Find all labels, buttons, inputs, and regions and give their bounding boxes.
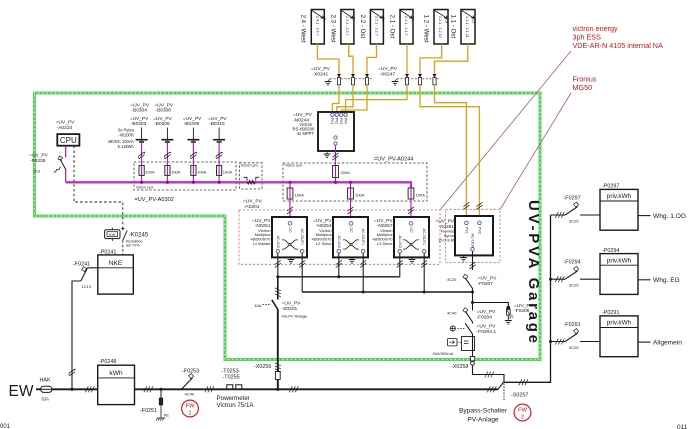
wire CPU to DC bus bbox=[65, 170, 67, 183]
DC busbar bbox=[66, 182, 411, 188]
svg-text:-B0306: -B0306 bbox=[154, 121, 170, 127]
svg-text:-P0294: -P0294 bbox=[602, 248, 619, 254]
svg-text:PV2: PV2 bbox=[477, 227, 481, 234]
svg-text:=UV_PV: =UV_PV bbox=[477, 324, 497, 330]
svg-text:15.0-3-M: 15.0-3-M bbox=[438, 237, 454, 242]
svg-text:2.1.1 - 2.1.7: 2.1.1 - 2.1.7 bbox=[404, 16, 408, 36]
svg-text:100A: 100A bbox=[295, 193, 305, 198]
svg-text:priv.kWh: priv.kWh bbox=[607, 257, 632, 264]
svg-text:kWh: kWh bbox=[109, 370, 123, 377]
red dashed enclosure A0301 ESS inverters bbox=[239, 210, 440, 264]
svg-text:-F0204: -F0204 bbox=[477, 314, 493, 320]
leader line victron bbox=[440, 51, 571, 210]
svg-text:-B0310: -B0310 bbox=[209, 121, 225, 127]
AC-OUT wires from inverters bbox=[302, 253, 424, 292]
wire X0258 to bypass bbox=[473, 365, 505, 381]
house service fuse HAK 63A bbox=[40, 378, 53, 402]
svg-text:-F0253: -F0253 bbox=[182, 368, 199, 374]
terminal X0256 bbox=[254, 363, 281, 380]
dashed enclosure A0302 battery fuse box bbox=[134, 162, 236, 190]
svg-text:=UV_PV: =UV_PV bbox=[378, 66, 398, 72]
svg-text:NKE: NKE bbox=[109, 260, 123, 267]
svg-text:-F0294: -F0294 bbox=[564, 260, 581, 266]
svg-text:-P0291: -P0291 bbox=[602, 310, 619, 316]
svg-text:Reduktion: Reduktion bbox=[126, 239, 143, 243]
svg-text:-F0297: -F0297 bbox=[564, 196, 581, 202]
svg-text:4x MPPT: 4x MPPT bbox=[297, 131, 314, 136]
svg-text:PV3: PV3 bbox=[339, 118, 343, 124]
break marks on DC feeders bbox=[287, 207, 293, 214]
svg-text:2.4 - West: 2.4 - West bbox=[300, 15, 307, 43]
AC-IN busbar bbox=[278, 276, 400, 278]
svg-text:L2 Slave: L2 Slave bbox=[316, 241, 332, 246]
svg-text:Victron Lynx: Victron Lynx bbox=[136, 185, 154, 189]
svg-text:2.3 - West: 2.3 - West bbox=[329, 15, 336, 43]
svg-text:=UV_PV: =UV_PV bbox=[208, 116, 227, 122]
svg-text:7x: 7x bbox=[352, 18, 356, 22]
meter P0297 priv.kWh bbox=[600, 184, 686, 231]
break marks at enclosure edge bbox=[275, 260, 281, 267]
svg-text:3C25: 3C25 bbox=[569, 283, 579, 288]
svg-text:CPU: CPU bbox=[60, 136, 77, 145]
fuse 200A bbox=[333, 166, 351, 183]
svg-text:1.2.1 - 1.2.10: 1.2.1 - 1.2.10 bbox=[438, 16, 442, 38]
svg-text:AC-IN2: AC-IN2 bbox=[398, 236, 402, 248]
svg-text:PV4: PV4 bbox=[343, 118, 347, 124]
svg-text:L3 Slave: L3 Slave bbox=[377, 241, 393, 246]
svg-text:-X0258: -X0258 bbox=[451, 364, 468, 370]
svg-text:HS-PV Anlage: HS-PV Anlage bbox=[282, 314, 308, 319]
surge arrester F0206 bbox=[505, 303, 534, 324]
svg-text:-S0201: -S0201 bbox=[282, 306, 298, 312]
battery string 4 bbox=[213, 128, 225, 183]
inverter U-N0254 L2 Slave bbox=[311, 217, 368, 263]
RCD block 40A/300mA bbox=[433, 334, 475, 357]
energy meter P0248 kWh bbox=[98, 359, 135, 404]
svg-text:40A/300mA: 40A/300mA bbox=[433, 351, 454, 356]
fuse F0251 to PE bbox=[140, 389, 169, 420]
battery fuse 100A 4 bbox=[217, 166, 233, 176]
svg-text:Powermeter: Powermeter bbox=[217, 395, 250, 402]
branch Whg. 1.OG bbox=[551, 196, 601, 224]
svg-text:=UV_PV: =UV_PV bbox=[293, 112, 313, 118]
breaker F0238 bbox=[29, 146, 66, 174]
svg-text:-F0206: -F0206 bbox=[514, 308, 530, 314]
battery labels row2 bbox=[130, 116, 228, 127]
PV string 1.2 - West bbox=[422, 10, 448, 45]
svg-text:-P0241: -P0241 bbox=[99, 249, 116, 255]
green dashed boundary UV-PVA Garage area bbox=[35, 93, 541, 360]
svg-text:63A: 63A bbox=[42, 397, 50, 402]
svg-text:VDE-AR-N 4105 internal NA: VDE-AR-N 4105 internal NA bbox=[573, 41, 663, 50]
svg-text:-P0297: -P0297 bbox=[602, 184, 619, 190]
red dashed enclosure A0261 Fronius bbox=[446, 209, 501, 262]
svg-text:=UV_PV: =UV_PV bbox=[155, 102, 174, 108]
svg-text:-T0253-: -T0253- bbox=[222, 368, 241, 374]
current transformer T0253-T0255 bbox=[217, 368, 255, 409]
battery fuse 100A 1 bbox=[139, 166, 155, 176]
marker FW2 bbox=[514, 404, 531, 421]
shunt symbol in Lynx box bbox=[244, 177, 260, 184]
svg-text:-A0224: -A0224 bbox=[57, 125, 73, 131]
svg-text:FW: FW bbox=[185, 404, 195, 410]
svg-text:=UV_PV: =UV_PV bbox=[311, 66, 331, 72]
svg-text:Whg. 1.OG: Whg. 1.OG bbox=[653, 213, 686, 220]
svg-text:4C40: 4C40 bbox=[447, 311, 457, 316]
svg-text:Whg. EG: Whg. EG bbox=[653, 277, 680, 284]
inverter fuse 100A N0251 bbox=[287, 188, 304, 199]
svg-text:PV-Anlage: PV-Anlage bbox=[467, 417, 498, 424]
battery fuse 100A 3 bbox=[191, 166, 207, 176]
battery bank data text bbox=[108, 128, 135, 150]
svg-text:auf 70%: auf 70% bbox=[126, 244, 140, 248]
marker FW1 bbox=[182, 400, 199, 417]
svg-text:-F0241: -F0241 bbox=[73, 261, 90, 267]
wire to surge arrester bbox=[473, 303, 509, 307]
bypass switch S0257 bbox=[498, 382, 528, 402]
AC-IN wires from inverters bbox=[278, 253, 400, 277]
dashed enclosure Lynx shunt bbox=[240, 163, 263, 189]
svg-text:-K0245: -K0245 bbox=[129, 233, 149, 239]
svg-text:=UV_PV: =UV_PV bbox=[130, 116, 149, 122]
svg-text:2: 2 bbox=[521, 415, 524, 421]
svg-text:21x: 21x bbox=[472, 18, 476, 24]
load feeder bus right bbox=[504, 215, 551, 382]
svg-text:=UV_PV: =UV_PV bbox=[514, 303, 534, 309]
svg-text:=UV_PV: =UV_PV bbox=[374, 218, 393, 224]
breaker F0241 1C13 bbox=[73, 261, 98, 289]
svg-text:priv.kWh: priv.kWh bbox=[607, 320, 632, 327]
svg-text:AC-OUT: AC-OUT bbox=[471, 234, 475, 249]
svg-text:L1 Master: L1 Master bbox=[253, 241, 271, 246]
svg-text:48100R: 48100R bbox=[119, 133, 133, 138]
EW main bus bbox=[36, 388, 498, 390]
svg-text:-B0304: -B0304 bbox=[131, 108, 147, 114]
svg-text:-B0308: -B0308 bbox=[156, 108, 172, 114]
riser to F0241 bbox=[72, 281, 81, 389]
svg-text:1.2 - West: 1.2 - West bbox=[422, 15, 429, 43]
svg-text:=UV_PV: =UV_PV bbox=[153, 116, 172, 122]
svg-text:=UV_PV: =UV_PV bbox=[477, 309, 497, 315]
inverter U-N0251 L1 Master bbox=[250, 217, 307, 263]
svg-text:100A: 100A bbox=[171, 170, 181, 175]
svg-text:7x: 7x bbox=[381, 18, 385, 22]
switch S0201 HS-PV Anlage bbox=[254, 277, 307, 319]
svg-text:200A: 200A bbox=[341, 170, 351, 175]
svg-text:2.4.1 - 2.4.7: 2.4.1 - 2.4.7 bbox=[316, 16, 320, 36]
svg-text:=UV_PV: =UV_PV bbox=[29, 152, 49, 158]
terminal strip X0241 bbox=[311, 66, 372, 85]
svg-text:-A0301: -A0301 bbox=[244, 204, 260, 210]
breaker F0204 4C40 bbox=[447, 303, 496, 323]
ripple control receiver P0241 NKE bbox=[98, 249, 134, 294]
terminal X0258 bbox=[451, 357, 475, 371]
svg-text:2.2 - Ost: 2.2 - Ost bbox=[359, 15, 366, 39]
svg-text:2K3: 2K3 bbox=[33, 169, 41, 174]
inverter fuse 100A N0254 bbox=[348, 188, 365, 199]
svg-text:DC: DC bbox=[409, 227, 413, 233]
svg-text:2.1 - Ost: 2.1 - Ost bbox=[388, 15, 395, 39]
svg-text:Victron 75/1A: Victron 75/1A bbox=[217, 402, 255, 409]
svg-text:-X0247: -X0247 bbox=[380, 71, 396, 77]
svg-text:1C13: 1C13 bbox=[82, 284, 92, 289]
svg-text:1.1.1 - 1.1.21: 1.1.1 - 1.1.21 bbox=[465, 16, 469, 38]
svg-text:1.1 - Ost: 1.1 - Ost bbox=[449, 15, 456, 39]
svg-text:Bypass-Schalter: Bypass-Schalter bbox=[459, 408, 508, 415]
svg-text:-F0251: -F0251 bbox=[140, 408, 157, 414]
svg-text:HAK: HAK bbox=[40, 378, 51, 384]
RCD switch F0204.1 bbox=[450, 322, 496, 335]
svg-text:=UV_PV: =UV_PV bbox=[282, 301, 302, 307]
svg-text:PV1: PV1 bbox=[330, 118, 334, 124]
terminal strip X0247 bbox=[378, 66, 439, 85]
relay contact K0245 bbox=[105, 227, 149, 255]
svg-text:100A: 100A bbox=[223, 170, 233, 175]
svg-text:=UV_PV: =UV_PV bbox=[313, 218, 332, 224]
svg-text:7x: 7x bbox=[411, 18, 415, 22]
leader line fronius bbox=[500, 93, 571, 210]
svg-text:40A: 40A bbox=[254, 303, 261, 308]
PV string 2.4 - West bbox=[300, 10, 326, 45]
svg-text:=UV_PV: =UV_PV bbox=[56, 120, 76, 126]
svg-text:PE: PE bbox=[164, 414, 170, 418]
wire fronius junction down bbox=[472, 292, 474, 303]
PV string 2.1 - Ost bbox=[388, 10, 414, 45]
PV wires strings to terminals bbox=[317, 44, 467, 74]
branch Whg. EG bbox=[551, 260, 601, 288]
svg-text:3C25: 3C25 bbox=[569, 345, 579, 350]
ground at N0244 bbox=[326, 151, 328, 154]
svg-text:100A: 100A bbox=[416, 193, 426, 198]
svg-text:AC-OUT1: AC-OUT1 bbox=[300, 229, 304, 246]
svg-text:AC-OUT1: AC-OUT1 bbox=[361, 229, 365, 246]
svg-text:100A: 100A bbox=[355, 193, 365, 198]
svg-text:-T0255: -T0255 bbox=[223, 375, 240, 381]
svg-text:=UV_PV: =UV_PV bbox=[130, 102, 149, 108]
svg-text:EW: EW bbox=[109, 232, 116, 237]
svg-text:-X0256: -X0256 bbox=[254, 364, 271, 370]
svg-text:AC-IN2: AC-IN2 bbox=[276, 236, 280, 248]
inverter A0261 Fronius Symo bbox=[435, 216, 493, 261]
PV string 1.1 - Ost bbox=[449, 10, 475, 45]
svg-text:PV1: PV1 bbox=[464, 227, 468, 234]
svg-text:PV2: PV2 bbox=[335, 118, 339, 124]
PV string 2.2 - Ost bbox=[359, 10, 385, 45]
svg-text:Allgemein: Allgemein bbox=[653, 340, 682, 347]
battery B0303/B0304 string 1 bbox=[136, 128, 148, 183]
junction dots EW bus bbox=[70, 388, 73, 391]
annotation victron energy 3ph ESS bbox=[573, 24, 663, 50]
wire break marks fronius PV wires bbox=[463, 202, 469, 209]
PV string 2.3 - West bbox=[329, 10, 355, 45]
svg-text:100A: 100A bbox=[197, 170, 207, 175]
svg-text:=UV_PV-A0244: =UV_PV-A0244 bbox=[374, 157, 413, 163]
svg-text:priv.kWh: priv.kWh bbox=[607, 193, 632, 200]
inverter fuse 100A N0257 bbox=[408, 188, 425, 199]
svg-text:MG50: MG50 bbox=[573, 83, 593, 92]
PV wires terminals to Fronius bbox=[420, 85, 479, 216]
svg-text:2.2.1 - 2.2.7: 2.2.1 - 2.2.7 bbox=[375, 16, 379, 36]
svg-text:4C25: 4C25 bbox=[447, 277, 457, 282]
battery labels row1 bbox=[130, 102, 173, 113]
svg-text:=UV_PV: =UV_PV bbox=[252, 218, 271, 224]
junction dots DC bus bbox=[140, 181, 352, 184]
svg-text:-F0238: -F0238 bbox=[30, 158, 46, 164]
svg-text:DC: DC bbox=[349, 227, 353, 233]
svg-text:-F0207: -F0207 bbox=[478, 281, 494, 287]
svg-text:-F0291: -F0291 bbox=[564, 322, 581, 328]
svg-text:-S0257: -S0257 bbox=[511, 392, 528, 398]
svg-text:=UV_PV: =UV_PV bbox=[478, 276, 498, 282]
break marks EW bus bbox=[85, 386, 94, 392]
svg-text:-B0309: -B0309 bbox=[184, 121, 200, 127]
dashed enclosure A0244 inverter fuse box bbox=[283, 163, 427, 201]
battery fuse 100A 2 bbox=[165, 166, 181, 176]
riser S0201 to X0256 bbox=[277, 310, 279, 390]
CPU controller A0224 bbox=[56, 120, 80, 146]
svg-text:1: 1 bbox=[188, 411, 191, 417]
branch Allgemein bbox=[551, 322, 601, 350]
DC feeder wires to Multiplus bbox=[290, 182, 411, 221]
breaker F0253 4C40 bbox=[182, 368, 200, 396]
annotation Fronius MG50 bbox=[573, 75, 597, 93]
dashed control line CPU to K0245 bbox=[74, 146, 123, 229]
svg-text:5.12kWh: 5.12kWh bbox=[118, 144, 135, 149]
battery string 3 bbox=[187, 128, 199, 183]
svg-text:FW: FW bbox=[518, 408, 528, 414]
svg-text:Victron Lynx: Victron Lynx bbox=[241, 163, 259, 167]
meter P0291 priv.kWh bbox=[600, 310, 682, 357]
svg-text:-X0241: -X0241 bbox=[313, 71, 329, 77]
battery string 2 bbox=[161, 128, 173, 183]
svg-text:=UV_PV: =UV_PV bbox=[183, 116, 202, 122]
svg-text:․001: ․001 bbox=[0, 424, 11, 429]
svg-text:Victron Lynx: Victron Lynx bbox=[285, 164, 303, 168]
PV wires terminals to MPPT inputs bbox=[332, 85, 407, 113]
svg-text:-B0303: -B0303 bbox=[131, 121, 147, 127]
svg-text:100A: 100A bbox=[145, 170, 155, 175]
DC wire MPPT to fuse bbox=[335, 145, 337, 165]
meter P0294 priv.kWh bbox=[600, 248, 680, 295]
svg-text:7x: 7x bbox=[322, 18, 326, 22]
svg-text:011: 011 bbox=[677, 424, 688, 429]
svg-text:=UV_PV: =UV_PV bbox=[435, 219, 454, 225]
svg-text:-F0204.1: -F0204.1 bbox=[477, 329, 497, 335]
svg-text:AC-OUT1: AC-OUT1 bbox=[422, 229, 426, 246]
inverter U-N0257 L3 Slave bbox=[372, 217, 429, 263]
wire fronius AC output bbox=[472, 251, 474, 292]
svg-text:2.3.1 - 2.3.7: 2.3.1 - 2.3.7 bbox=[345, 16, 349, 36]
svg-text:4C40: 4C40 bbox=[185, 392, 195, 397]
svg-text:3C25: 3C25 bbox=[569, 218, 579, 223]
AC-OUT busbar bbox=[302, 291, 472, 293]
svg-text:=UV_PV: =UV_PV bbox=[243, 199, 263, 205]
svg-text:=UV_PV-A0302: =UV_PV-A0302 bbox=[135, 197, 174, 203]
svg-text:EW: EW bbox=[9, 383, 34, 400]
svg-text:10x: 10x bbox=[445, 18, 449, 24]
svg-text:AC-IN2: AC-IN2 bbox=[337, 236, 341, 248]
svg-text:-P0248: -P0248 bbox=[99, 359, 116, 365]
MPPT charger U-N0244 bbox=[293, 112, 355, 151]
breaker F0207 4C25 bbox=[447, 274, 497, 288]
svg-text:DC: DC bbox=[288, 227, 292, 233]
